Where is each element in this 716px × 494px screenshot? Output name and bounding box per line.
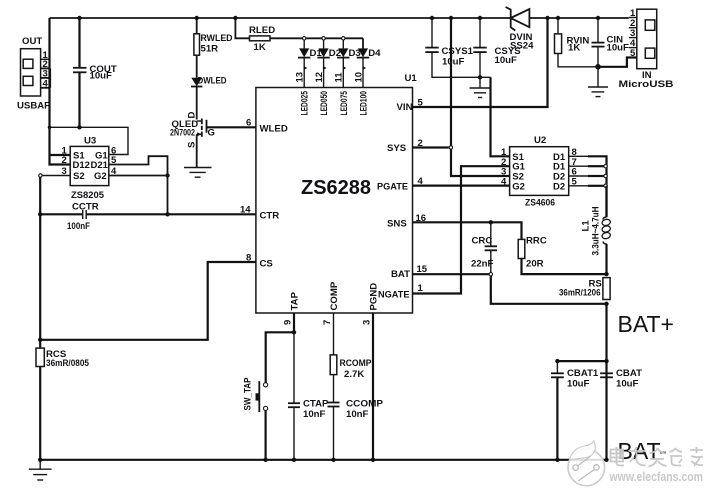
wire MicroUSB pin5 to gnd bbox=[598, 58, 637, 67]
svg-text:14: 14 bbox=[240, 205, 251, 216]
node junction VIN riser top bbox=[545, 16, 549, 20]
node junction CIN top bbox=[596, 16, 600, 20]
capacitor CBAT bbox=[600, 368, 642, 390]
ground CSYS bbox=[470, 77, 491, 97]
wire bottom rail bbox=[40, 459, 606, 461]
capacitor CRC bbox=[471, 222, 497, 274]
node junction pin4/riser bbox=[165, 173, 169, 177]
svg-text:12: 12 bbox=[314, 72, 325, 83]
LED D4 bbox=[357, 38, 381, 87]
wire VIN pin5 bbox=[413, 18, 548, 107]
svg-text:U2: U2 bbox=[534, 135, 546, 146]
wire U3 pin5 jog to CTR riser bbox=[109, 156, 168, 214]
svg-text:10nF: 10nF bbox=[303, 409, 326, 420]
svg-text:SW_TAP: SW_TAP bbox=[243, 377, 254, 411]
wire PGND bbox=[372, 313, 374, 460]
svg-text:CSYS1: CSYS1 bbox=[442, 46, 474, 57]
svg-text:S: S bbox=[186, 141, 197, 148]
svg-text:MicroUSB: MicroUSB bbox=[619, 79, 674, 90]
node junction COUT top bbox=[77, 16, 81, 20]
capacitor COUT bbox=[73, 18, 117, 127]
node junction CCOMP bottom bbox=[331, 458, 335, 462]
node junction at (79.5,127.3) bbox=[77, 125, 81, 129]
svg-text:COMP: COMP bbox=[329, 281, 340, 310]
LED D3 bbox=[337, 37, 361, 88]
node junction RS bottom bbox=[604, 302, 608, 306]
wire WLED gate to U1 pin6 bbox=[207, 126, 256, 128]
wire SYS riser bbox=[451, 18, 510, 176]
svg-text:4: 4 bbox=[43, 79, 49, 90]
svg-text:CBAT: CBAT bbox=[616, 368, 642, 379]
svg-text:10uF: 10uF bbox=[607, 43, 630, 54]
ground CIN bbox=[588, 67, 608, 97]
svg-text:2.7K: 2.7K bbox=[344, 369, 364, 380]
resistor RS bbox=[559, 278, 610, 300]
svg-text:10: 10 bbox=[353, 72, 364, 83]
wire BAT descender bbox=[491, 276, 607, 304]
svg-text:LED050: LED050 bbox=[319, 91, 330, 116]
svg-text:2N7002: 2N7002 bbox=[170, 128, 195, 139]
capacitor CBAT1 bbox=[551, 361, 599, 460]
wire CS route bbox=[40, 262, 256, 340]
capacitor CCOMP bbox=[328, 399, 384, 460]
svg-text:CRC: CRC bbox=[472, 236, 493, 247]
wire left vertical from rail to U3 pin2 bbox=[50, 18, 71, 165]
node junction small at (49.5,127.3) bbox=[48, 126, 52, 130]
IC U3 ZS8205 bbox=[62, 136, 118, 202]
svg-text:CTR: CTR bbox=[260, 211, 280, 222]
svg-text:CCTR: CCTR bbox=[72, 202, 99, 213]
resistor RCOMP bbox=[330, 313, 372, 402]
watermark logo circle bbox=[568, 441, 605, 486]
svg-text:WLED: WLED bbox=[260, 124, 288, 135]
LED DWLED bbox=[191, 76, 227, 120]
svg-text:ZS8205: ZS8205 bbox=[71, 190, 105, 201]
svg-text:RWLED: RWLED bbox=[201, 33, 233, 44]
svg-text:36mR/0805: 36mR/0805 bbox=[46, 358, 90, 369]
capacitor CSYS1 bbox=[425, 18, 490, 77]
svg-text:SYS: SYS bbox=[387, 143, 407, 154]
svg-text:LED075: LED075 bbox=[339, 91, 350, 116]
wire U3 pin1 stub bbox=[50, 154, 71, 156]
svg-text:D2: D2 bbox=[553, 181, 565, 192]
switch SW_TAP bbox=[243, 377, 268, 460]
svg-text:3.3uH~4.7uH: 3.3uH~4.7uH bbox=[591, 206, 602, 255]
svg-text:10uF: 10uF bbox=[616, 379, 639, 390]
node junction CSYS bottom bbox=[478, 75, 482, 79]
connector J-OUT USBAF bbox=[17, 36, 50, 112]
capacitor CSYS bbox=[473, 18, 521, 77]
svg-text:TAP: TAP bbox=[289, 291, 300, 310]
node junction PGND bottom bbox=[371, 458, 375, 462]
svg-text:22nF: 22nF bbox=[471, 259, 494, 270]
ground bottom left bbox=[29, 460, 52, 480]
capacitor CCTR bbox=[40, 202, 256, 233]
wire S1 riser bbox=[491, 77, 510, 156]
wire U3 pin4 stub bbox=[109, 175, 168, 177]
node junction CRC top bbox=[489, 220, 493, 224]
svg-text:BAT: BAT bbox=[391, 269, 410, 280]
svg-text:1K: 1K bbox=[568, 43, 580, 54]
wire SYS pin2 bbox=[413, 146, 449, 148]
svg-text:S2: S2 bbox=[73, 171, 85, 182]
wire NGATE route to G1 bbox=[413, 166, 510, 293]
svg-text:RRC: RRC bbox=[526, 236, 547, 247]
resistor RLED bbox=[235, 18, 363, 53]
svg-text:U3: U3 bbox=[84, 136, 96, 147]
svg-text:SS24: SS24 bbox=[510, 41, 534, 52]
resistor RRC bbox=[518, 236, 606, 275]
wire left net vertical x=40.2 (U3 pin3 to RCS) bbox=[39, 177, 41, 348]
svg-text:NGATE: NGATE bbox=[378, 290, 410, 301]
IC U1 ZS6288 bbox=[240, 73, 428, 325]
wire U2 pin8 to bus bbox=[569, 155, 589, 157]
svg-text:6: 6 bbox=[246, 118, 251, 129]
svg-text:www.elecfans.com: www.elecfans.com bbox=[609, 469, 703, 484]
node junction rail left bbox=[38, 458, 42, 462]
transistor QLED 2N7002 bbox=[170, 112, 215, 168]
wire TAP pin bbox=[293, 313, 295, 332]
svg-text:36mR/1206: 36mR/1206 bbox=[559, 288, 601, 299]
node junction L1 bottom bbox=[604, 272, 608, 276]
svg-text:10uF: 10uF bbox=[567, 379, 590, 390]
node junction CBAT bottom bbox=[604, 458, 608, 462]
connector J-IN MicroUSB bbox=[619, 8, 674, 90]
capacitor CIN bbox=[592, 18, 630, 67]
svg-text:RCOMP: RCOMP bbox=[340, 358, 373, 369]
svg-text:2: 2 bbox=[62, 155, 67, 166]
svg-text:ZS4606: ZS4606 bbox=[525, 198, 555, 209]
resistor RVIN bbox=[555, 18, 599, 67]
node junction CBAT1 bottom bbox=[555, 458, 559, 462]
node junction SYS riser top bbox=[449, 16, 453, 20]
svg-text:CTAP: CTAP bbox=[303, 399, 329, 410]
svg-text:D: D bbox=[186, 112, 197, 119]
node junction TAP bbox=[292, 330, 296, 334]
node junction RWLED top bbox=[195, 16, 199, 20]
svg-text:RLED: RLED bbox=[249, 25, 275, 36]
node junction CIN bottom bbox=[595, 64, 601, 70]
wire SW branch bbox=[266, 332, 294, 382]
svg-text:9: 9 bbox=[282, 320, 293, 325]
svg-text:CCOMP: CCOMP bbox=[346, 399, 384, 410]
svg-text:PGATE: PGATE bbox=[377, 182, 409, 193]
svg-text:CBAT1: CBAT1 bbox=[567, 368, 599, 379]
svg-text:51R: 51R bbox=[201, 44, 219, 55]
wire U3 upper horizontal (COUT bottom to G1 riser) bbox=[50, 127, 129, 154]
wire top SYS rail bbox=[50, 17, 511, 19]
svg-text:20R: 20R bbox=[526, 259, 544, 270]
svg-text:13: 13 bbox=[295, 72, 306, 83]
watermark chinese text 电子发烧友 bbox=[611, 447, 704, 467]
svg-text:G: G bbox=[208, 128, 215, 139]
svg-text:G2: G2 bbox=[94, 171, 107, 182]
svg-text:PGND: PGND bbox=[368, 283, 379, 311]
resistor RCS bbox=[36, 348, 90, 460]
node junction RCS top bbox=[38, 338, 42, 342]
svg-text:U1: U1 bbox=[405, 73, 418, 84]
svg-text:USBAF: USBAF bbox=[17, 101, 50, 112]
wire BAT pin15 bbox=[413, 273, 490, 275]
node junction SW bottom bbox=[263, 458, 267, 462]
wire BAT+ trunk down bbox=[605, 304, 607, 460]
svg-text:10uF: 10uF bbox=[90, 71, 113, 82]
LED D2 bbox=[317, 37, 341, 88]
wire SNS pin16 bbox=[413, 222, 522, 239]
svg-text:CS: CS bbox=[260, 259, 274, 270]
svg-text:BAT+: BAT+ bbox=[618, 311, 674, 337]
node junction CTR riser bbox=[165, 212, 169, 216]
wire top VIN rail bbox=[529, 17, 628, 19]
svg-text:1: 1 bbox=[418, 283, 424, 294]
svg-text:10uF: 10uF bbox=[442, 57, 465, 68]
svg-text:10nF: 10nF bbox=[346, 409, 369, 420]
inductor L1 bbox=[580, 206, 611, 274]
svg-text:4: 4 bbox=[501, 177, 507, 188]
svg-text:ZS6288: ZS6288 bbox=[301, 177, 371, 199]
LED D1 bbox=[298, 37, 322, 88]
svg-text:D4: D4 bbox=[368, 48, 381, 59]
svg-text:G2: G2 bbox=[512, 181, 525, 192]
node junction RLED top bbox=[233, 16, 237, 20]
svg-text:10uF: 10uF bbox=[495, 55, 518, 66]
resistor RWLED bbox=[194, 18, 233, 78]
svg-text:DWLED: DWLED bbox=[198, 76, 227, 87]
node junction CSYS top bbox=[478, 16, 482, 20]
svg-text:D21: D21 bbox=[91, 160, 109, 171]
wire bus above L1 bbox=[605, 186, 607, 217]
node junction CBAT top bbox=[604, 359, 608, 363]
node junction CCTR left bbox=[38, 212, 42, 216]
svg-text:OUT: OUT bbox=[22, 36, 42, 47]
svg-text:11: 11 bbox=[334, 72, 345, 83]
wire U2 pin7 bbox=[569, 165, 589, 167]
capacitor CTAP bbox=[288, 332, 329, 460]
svg-text:7: 7 bbox=[322, 320, 333, 325]
wire U3 pin3 stub with ring bbox=[42, 175, 70, 177]
wire U2 pin5 bbox=[569, 185, 589, 187]
ground QLED source bbox=[184, 168, 212, 178]
wire PGATE to G2 bbox=[413, 185, 510, 187]
wire CBAT1 branch bbox=[557, 360, 606, 362]
svg-text:LED100: LED100 bbox=[359, 91, 370, 116]
wire U2 pin6 bbox=[569, 175, 589, 177]
svg-text:1K: 1K bbox=[254, 42, 266, 53]
node junction CTAP bottom bbox=[292, 458, 296, 462]
svg-text:LED025: LED025 bbox=[300, 91, 311, 116]
svg-text:SNS: SNS bbox=[387, 219, 407, 230]
svg-text:3: 3 bbox=[361, 320, 372, 325]
diode DVIN SS24 bbox=[506, 7, 535, 52]
node junction CSYS1 top bbox=[430, 16, 434, 20]
IC U2 ZS4606 bbox=[501, 135, 578, 209]
svg-text:100nF: 100nF bbox=[67, 221, 90, 232]
node junction RVIN top bbox=[556, 16, 560, 20]
svg-text:D12: D12 bbox=[73, 160, 90, 171]
svg-text:VIN: VIN bbox=[397, 102, 413, 113]
